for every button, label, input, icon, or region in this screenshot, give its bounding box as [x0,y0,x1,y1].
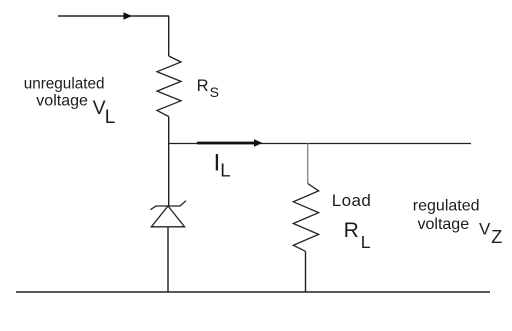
wire middle output horizontal [169,143,471,145]
svg-text:V: V [93,97,106,119]
svg-text:voltage: voltage [418,216,470,233]
wire load branch from output node (gray) [307,144,309,184]
zener diode D1 cathode bar with bent ends [151,201,187,210]
svg-text:Z: Z [491,227,502,247]
wire vertical from top corner to RS [168,16,170,56]
wire bottom ground rail [16,291,490,293]
svg-text:voltage: voltage [36,93,88,110]
wire RL bottom to bottom rail [305,251,307,292]
svg-text:Load: Load [332,191,371,210]
svg-text:V: V [479,220,491,239]
resistor RS zigzag [157,56,181,117]
resistor RL zigzag [293,184,318,252]
svg-text:L: L [105,107,116,128]
svg-text:R: R [197,77,209,95]
arrow load current IL [197,139,263,147]
svg-text:L: L [220,160,230,181]
svg-text:S: S [210,84,219,100]
svg-text:I: I [214,149,221,176]
svg-text:regulated: regulated [413,198,480,215]
wire top input horizontal [58,15,169,17]
wire vertical RS bottom through junction to zener cathode [168,117,170,207]
wire zener anode to bottom rail [167,227,169,292]
zener diode D1 anode triangle [151,206,184,227]
svg-text:L: L [361,232,371,252]
arrowhead input current direction [124,12,133,20]
svg-text:unregulated: unregulated [24,75,105,92]
svg-text:R: R [344,219,359,242]
